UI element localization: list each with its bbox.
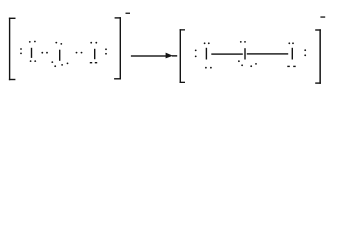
top lone pair of atom Ia bbox=[29, 41, 36, 43]
superscript minus charge of product group bbox=[320, 16, 325, 17]
right bracket ] of reactant group bbox=[114, 17, 121, 79]
bond I2-I3 bbox=[247, 53, 288, 54]
right colon lone pair on atom I3 bbox=[304, 49, 306, 56]
reaction arrow head bbox=[166, 53, 178, 59]
bottom lone pair of atom Ia bbox=[30, 60, 36, 62]
superscript minus charge of reactant group bbox=[126, 13, 131, 14]
atom I1 letter I bbox=[206, 48, 207, 60]
bottom lone pairs of atom Ib bbox=[51, 61, 68, 67]
left bracket [ of product group bbox=[180, 29, 185, 83]
bottom lone pair of atom Ic bbox=[90, 62, 97, 63]
top lone pair of atom I3 bbox=[288, 42, 294, 44]
left colon lone pair on atom Ia bbox=[20, 48, 22, 54]
right colon lone pair on atom Ic bbox=[105, 48, 107, 54]
right bracket ] of product group bbox=[315, 29, 321, 84]
bond I1-I2 bbox=[211, 53, 243, 54]
top lone pair of atom I1 bbox=[204, 42, 210, 44]
top lone pair of atom Ib bbox=[55, 42, 62, 45]
bottom lone pairs of atom I2 bbox=[238, 60, 257, 67]
atom Ia letter I bbox=[31, 48, 32, 58]
bottom lone pair of atom I3 bbox=[287, 66, 295, 67]
electron pair between Ib and Ic bbox=[76, 52, 83, 54]
atom Ib letter I bbox=[59, 50, 60, 61]
top lone pair of atom I2 bbox=[240, 41, 246, 43]
bottom lone pair of atom I1 bbox=[205, 67, 212, 69]
left bracket [ of reactant group bbox=[9, 18, 16, 81]
electron pair between Ia and Ib bbox=[41, 52, 48, 54]
atom Ic letter I bbox=[94, 49, 95, 59]
left colon lone pair on atom I1 bbox=[195, 50, 197, 58]
atom I3 letter I bbox=[292, 48, 293, 60]
top lone pair of atom Ic bbox=[90, 42, 97, 44]
reaction arrow shaft bbox=[131, 55, 167, 56]
atom I2 letter I bbox=[244, 48, 245, 59]
